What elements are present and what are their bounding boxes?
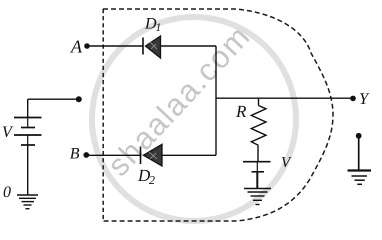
wire B to diode D2 [86,154,140,156]
wire down to battery V left [27,99,29,117]
wire battery to ground left [27,145,29,195]
wire D1 to vertical connector [161,45,217,47]
resistor R [251,106,266,146]
svg-text:R: R [235,102,247,121]
wire D2 to vertical connector [162,154,216,156]
wire resistor to battery right [257,145,259,161]
node Y dot [350,96,356,102]
ground left [17,195,38,209]
ground far-right [348,171,372,185]
svg-text:Y: Y [359,89,370,108]
ground right-bottom [244,189,271,205]
svg-text:0: 0 [3,184,11,201]
wire resistor stub top [258,98,260,105]
svg-text:V: V [2,124,14,141]
svg-text:1: 1 [156,22,162,34]
svg-text:B: B [70,146,80,163]
wire far-right ground [358,136,360,171]
wire vertical connector [215,46,217,155]
node A terminal dot [84,43,90,49]
diode D2 [141,144,163,166]
node left supply dot [76,96,82,102]
wire battery to ground right-bottom [256,172,258,189]
node B terminal dot [83,152,89,158]
svg-text:2: 2 [149,173,155,187]
wire output to Y [216,97,353,99]
dashed gate outline [103,9,333,222]
wire A to diode D1 [87,45,143,47]
node far-right ground dot [356,133,362,139]
svg-text:A: A [70,37,83,57]
diode D1 [143,36,161,58]
wire left supply horizontal [28,98,79,100]
battery V right [243,162,271,172]
watermark ring [92,17,296,221]
battery V left [14,118,42,146]
